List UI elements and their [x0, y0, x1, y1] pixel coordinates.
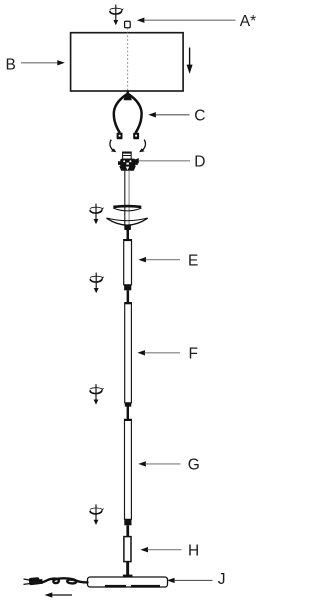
- svg-text:A*: A*: [240, 13, 256, 30]
- power cord: [41, 578, 88, 583]
- leader arrow J: [167, 578, 213, 583]
- pole segment E: [124, 240, 132, 285]
- lamp shade B: [71, 33, 184, 91]
- leader arrow H: [140, 547, 181, 552]
- rotation arc left: [110, 140, 116, 153]
- finial nut A: [125, 21, 131, 27]
- pole segment H: [124, 537, 131, 562]
- base tenon: [123, 575, 132, 578]
- leader arrow E: [138, 257, 180, 262]
- E bottom connector: [124, 285, 131, 303]
- rotation arc right: [139, 140, 145, 153]
- screw symbol 3: [89, 273, 104, 294]
- base J: [88, 577, 168, 588]
- lower bowl: [107, 218, 148, 225]
- leader arrow B: [21, 60, 65, 65]
- stem above pole E: [127, 230, 130, 241]
- F bottom connector: [125, 403, 132, 420]
- harp C: [114, 90, 142, 139]
- leader arrow G: [138, 461, 180, 466]
- leader arrow D: [131, 158, 190, 163]
- screw symbol top (finial tightening): [109, 5, 124, 26]
- svg-text:C: C: [194, 107, 205, 124]
- svg-text:G: G: [188, 457, 200, 474]
- threaded pipe below socket: [125, 171, 129, 226]
- pole segment G: [125, 419, 132, 519]
- H bottom rod: [126, 562, 129, 576]
- plug: [24, 577, 43, 585]
- screw symbol 4: [89, 384, 104, 405]
- svg-text:D: D: [194, 153, 205, 170]
- down arrow (shade placement): [187, 48, 193, 75]
- leader arrow A*: [137, 18, 236, 23]
- center dashed axis line: [127, 28, 129, 91]
- leader arrow F: [137, 350, 180, 355]
- screw symbol 2: [89, 204, 104, 225]
- G bottom connector: [124, 519, 131, 536]
- svg-text:E: E: [188, 252, 198, 269]
- pole segment F: [125, 302, 132, 402]
- svg-text:B: B: [6, 56, 16, 73]
- svg-text:H: H: [188, 543, 199, 560]
- pull-out arrow: [45, 592, 73, 597]
- hub node: [124, 225, 131, 230]
- leader arrow C: [148, 112, 189, 117]
- screw symbol 5: [89, 504, 104, 525]
- svg-text:J: J: [218, 571, 226, 588]
- upper disc (shade rest): [113, 206, 141, 211]
- socket D: [118, 152, 138, 171]
- svg-text:F: F: [189, 345, 198, 362]
